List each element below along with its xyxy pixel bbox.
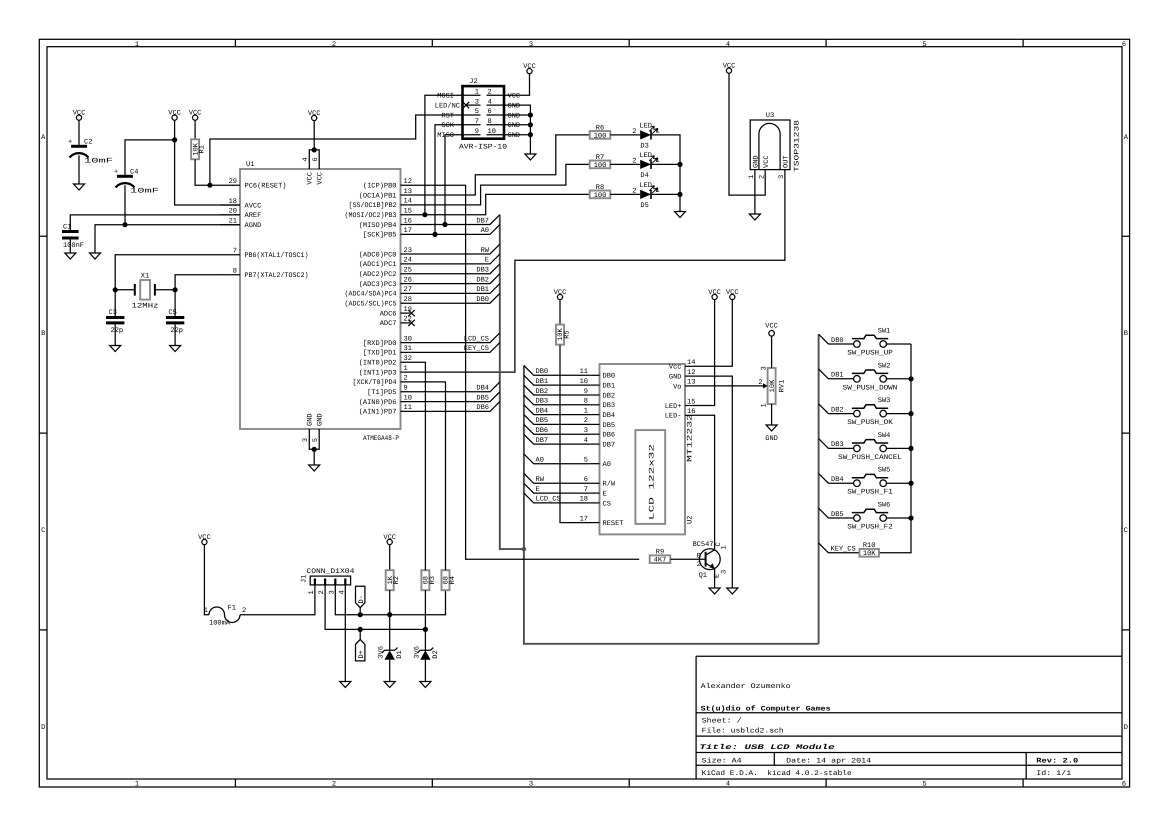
svg-text:SW3: SW3 [878, 397, 891, 405]
wire SW4 to right rail [887, 447, 912, 449]
svg-text:100: 100 [594, 132, 607, 140]
svg-text:4: 4 [726, 781, 730, 789]
svg-text:D2: D2 [432, 650, 440, 658]
wire VCC down to LED+ pin15 [694, 300, 715, 406]
svg-text:5: 5 [475, 108, 479, 116]
svg-text:Date: 14 apr 2014: Date: 14 apr 2014 [786, 758, 871, 766]
svg-text:3: 3 [302, 438, 310, 442]
svg-text:12: 12 [404, 178, 412, 186]
wire VCC to R5 [559, 300, 561, 325]
svg-text:TSOP31238: TSOP31238 [794, 120, 802, 172]
svg-text:2: 2 [242, 607, 246, 615]
svg-text:[RXD]PD0: [RXD]PD0 [363, 339, 397, 348]
svg-text:SW6: SW6 [878, 502, 891, 510]
svg-text:SW_PUSH_DOWN: SW_PUSH_DOWN [843, 384, 898, 392]
wire+bus entry A0 from U1 [421, 225, 500, 235]
svg-text:2: 2 [332, 781, 336, 789]
svg-text:F1: F1 [228, 605, 236, 613]
svg-text:100: 100 [594, 162, 607, 170]
wire R2 to D- line and D1 [389, 590, 391, 650]
wire+bus entry KEY_CS to R10 [819, 543, 860, 553]
wire D+ label stem [359, 629, 361, 639]
ground symbol AGND [90, 253, 101, 259]
svg-text:1: 1 [761, 403, 769, 407]
wire+bus entry E to LCD [524, 483, 591, 493]
svg-text:Vcc: Vcc [669, 364, 682, 372]
svg-text:10: 10 [488, 128, 496, 136]
power symbol VCC above fuse F1 [198, 534, 211, 545]
svg-text:28: 28 [404, 296, 412, 304]
svg-text:DB5: DB5 [476, 394, 489, 402]
svg-text:DB0: DB0 [476, 296, 489, 304]
wire PB6 to crystal left [115, 255, 220, 290]
title block frame [696, 656, 1122, 779]
wire SW1 to right rail [887, 343, 912, 345]
ground symbol below C1 [65, 253, 76, 259]
svg-text:DB2: DB2 [603, 392, 616, 400]
svg-text:DB3: DB3 [831, 441, 844, 449]
global label D+ [355, 639, 365, 661]
junction SW4 on rail [908, 446, 913, 451]
wire PB2 pin14 to R7 (stepped) [421, 164, 590, 205]
svg-text:U2: U2 [687, 516, 695, 524]
svg-text:(AIN0)PD6: (AIN0)PD6 [359, 398, 397, 407]
svg-text:SW2: SW2 [878, 362, 891, 370]
svg-text:VCC: VCC [508, 93, 521, 101]
junction SW6 on rail [908, 515, 913, 520]
svg-text:(MOSI/OC2)PB3: (MOSI/OC2)PB3 [345, 211, 397, 220]
svg-text:ADC7: ADC7 [380, 320, 397, 328]
svg-text:[XCK/T0]PD4: [XCK/T0]PD4 [353, 378, 397, 387]
capacitor C2 (polarized 10mF) [68, 120, 113, 184]
wire MOSI from J2 pin1 down to U1 PB3 row [425, 95, 456, 214]
svg-text:6: 6 [1122, 781, 1126, 789]
svg-text:RST: RST [441, 112, 454, 120]
junction J2 GND rail row6 [528, 112, 533, 117]
svg-text:ADC6: ADC6 [380, 310, 397, 318]
capacitor C5 22p [166, 290, 184, 346]
svg-text:22p: 22p [111, 327, 124, 335]
power symbol VCC above R1 [189, 109, 202, 120]
svg-text:SCK: SCK [441, 122, 454, 130]
svg-text:Alexander Ozumenko: Alexander Ozumenko [701, 682, 791, 691]
wire LCD GND pin12 to ground [694, 376, 733, 588]
resistor R6 100 [590, 131, 611, 139]
svg-text:5: 5 [922, 781, 926, 789]
svg-text:RW: RW [536, 476, 545, 484]
svg-text:GND: GND [508, 122, 521, 130]
svg-text:1: 1 [656, 157, 660, 165]
junction D+ label on D+ line [358, 627, 363, 632]
wire SW3 to right rail [887, 413, 912, 415]
svg-text:2: 2 [488, 89, 492, 97]
svg-text:31: 31 [404, 345, 412, 353]
wire U3 pin2 to VCC [729, 73, 765, 195]
svg-text:B: B [41, 330, 45, 338]
junction SW3 on rail [908, 411, 913, 416]
svg-text:DB5: DB5 [603, 422, 616, 430]
resistor R3 68 [421, 570, 429, 590]
wire VCC to R1 [194, 120, 196, 139]
svg-text:GND: GND [508, 103, 521, 111]
svg-text:DB7: DB7 [536, 437, 549, 445]
svg-text:1: 1 [656, 187, 660, 195]
wire PB0 pin12 to R9 (long route) [421, 185, 640, 559]
svg-text:Rev: 2.0: Rev: 2.0 [1036, 758, 1078, 766]
ground symbol below C5 [170, 346, 181, 352]
wire+bus entry DB3 to SW4 [819, 439, 854, 449]
svg-text:J1: J1 [301, 575, 309, 583]
svg-text:3: 3 [475, 98, 479, 106]
wire J2 VCC pin2 to VCC symbol [512, 74, 530, 96]
wire+bus entry DB4 to SW5 [819, 473, 854, 483]
wire+bus entry RW to LCD [524, 474, 591, 484]
power symbol VCC above C4 / AVCC rail [168, 109, 181, 120]
LED D4 [640, 160, 651, 169]
junction crystal right / C5 / PB7 [173, 287, 178, 292]
svg-text:4: 4 [302, 157, 310, 161]
svg-text:RW: RW [481, 247, 490, 255]
global label D- [355, 586, 365, 608]
svg-text:VCC: VCC [765, 323, 778, 331]
svg-text:R5: R5 [564, 330, 572, 338]
LCD right pins [665, 359, 696, 421]
svg-text:File: usblcd2.sch: File: usblcd2.sch [702, 727, 784, 736]
svg-text:R6: R6 [596, 124, 604, 132]
ground symbol below LCD GND [727, 588, 738, 594]
ground symbol below D2 [420, 682, 431, 688]
wire VCC to AVCC rail and C4 top [125, 120, 240, 205]
power symbol VCC for LCD Vcc [726, 289, 739, 300]
svg-text:[SCK]PB5: [SCK]PB5 [363, 231, 397, 240]
wire D4 cathode to rail [651, 163, 680, 165]
wire Q1 emitter to ground [714, 569, 716, 588]
svg-text:3V6: 3V6 [413, 646, 421, 659]
svg-text:MT12232: MT12232 [687, 414, 695, 462]
svg-text:D: D [41, 724, 45, 732]
wire+bus entry LCD_CS from U1 [421, 333, 500, 343]
svg-text:LED/NC: LED/NC [435, 102, 460, 111]
bus junction at jog [522, 547, 526, 551]
svg-text:VCC: VCC [308, 110, 321, 118]
svg-text:DB4: DB4 [831, 476, 844, 484]
svg-text:LED-: LED- [665, 413, 682, 421]
svg-text:LED: LED [639, 152, 652, 160]
LCD left pins [580, 368, 624, 528]
wire RV1 pin1 to GND [771, 404, 773, 425]
svg-text:4K7: 4K7 [654, 557, 667, 565]
svg-text:SW_PUSH_UP: SW_PUSH_UP [847, 350, 893, 358]
svg-text:SW5: SW5 [878, 467, 891, 475]
svg-text:C2: C2 [84, 139, 92, 147]
ground symbol below RV1 with label [766, 425, 777, 431]
junction D4 on rail [677, 162, 682, 167]
svg-text:DB4: DB4 [536, 407, 549, 415]
wire R7 to LED D4 [610, 163, 640, 165]
junction SW5 on rail [908, 481, 913, 486]
junction SW2 on rail [908, 376, 913, 381]
svg-text:2: 2 [632, 187, 636, 195]
power symbol VCC above U1 [308, 110, 321, 121]
LCD module U2 body [600, 364, 686, 534]
svg-text:DB1: DB1 [603, 383, 616, 391]
svg-text:VCC: VCC [708, 289, 721, 297]
svg-text:DB1: DB1 [831, 372, 844, 380]
svg-text:C1: C1 [63, 224, 71, 232]
svg-text:B: B [1124, 330, 1128, 338]
svg-text:10mF: 10mF [130, 188, 159, 196]
svg-text:LED+: LED+ [665, 403, 682, 411]
svg-text:100nF: 100nF [63, 242, 84, 250]
svg-text:DB4: DB4 [476, 385, 489, 393]
no-connect X on pin 19 ADC6 [408, 310, 414, 316]
svg-text:U3: U3 [766, 112, 774, 120]
svg-text:RV1: RV1 [779, 380, 787, 393]
svg-text:1: 1 [135, 781, 139, 789]
wire U3 pin1 GND down [754, 170, 756, 214]
svg-text:A0: A0 [481, 227, 489, 235]
resistor R7 100 [590, 161, 611, 169]
svg-text:VCC: VCC [168, 109, 181, 117]
wire+bus entry DB6 to LCD [524, 424, 591, 434]
svg-text:(ADC5/SCL)PC5: (ADC5/SCL)PC5 [345, 300, 397, 309]
svg-text:6: 6 [488, 108, 492, 116]
svg-text:PC6(RESET): PC6(RESET) [245, 182, 287, 191]
connector J1 pin stubs and numbers [308, 579, 346, 595]
svg-text:DB0: DB0 [603, 373, 616, 381]
svg-text:1: 1 [404, 365, 408, 373]
svg-text:CONN_D1X04: CONN_D1X04 [306, 568, 354, 576]
switch SW6 SW_PUSH_F2 [847, 502, 893, 532]
svg-text:2: 2 [632, 157, 636, 165]
resistor R8 100 [590, 191, 611, 199]
ground symbol below J1 pin4 [340, 682, 351, 688]
svg-text:ATMEGA48-P: ATMEGA48-P [363, 435, 399, 443]
wire SW6 to right rail [887, 517, 912, 519]
svg-text:LCD_CS: LCD_CS [536, 496, 561, 504]
svg-text:OUT: OUT [783, 155, 791, 168]
svg-text:PB6(XTAL1/TOSC1): PB6(XTAL1/TOSC1) [245, 251, 309, 260]
wire+bus entry DB1 to LCD [524, 375, 591, 385]
svg-text:RESET: RESET [603, 520, 624, 528]
ground symbol below J2 [525, 154, 536, 160]
wire+bus entry DB1 to SW2 [819, 369, 854, 379]
zener diode D2 3V6 [418, 648, 434, 653]
svg-text:2: 2 [404, 375, 408, 383]
junction J2 GND rail row10 [528, 132, 533, 137]
wire+bus entry E from U1 [421, 254, 500, 264]
svg-text:DB6: DB6 [536, 427, 549, 435]
svg-text:22p: 22p [170, 327, 183, 335]
svg-text:4: 4 [488, 98, 492, 106]
svg-text:DB2: DB2 [831, 406, 844, 414]
svg-text:14: 14 [404, 198, 412, 206]
wire+bus entry DB6 from U1 [421, 402, 500, 412]
power symbol VCC above RV1 (with circle) [765, 323, 778, 337]
wire D1 to ground [389, 660, 391, 682]
svg-text:D1: D1 [396, 650, 404, 658]
svg-text:(AIN1)PD7: (AIN1)PD7 [359, 408, 397, 417]
junction SCK on PB5 wire [432, 232, 437, 237]
svg-text:DB5: DB5 [831, 511, 844, 519]
svg-text:SW_PUSH_CANCEL: SW_PUSH_CANCEL [838, 454, 902, 462]
wire+bus entry DB3 to LCD [524, 395, 591, 405]
svg-text:Size: A4: Size: A4 [702, 757, 742, 766]
wire AGND: U1 pin21 to ground, with C4 tap [95, 225, 240, 253]
wire J1 pin4 to ground [344, 585, 346, 682]
junction D5 on rail [677, 192, 682, 197]
svg-text:DB7: DB7 [603, 442, 616, 450]
svg-text:VCC: VCC [763, 155, 771, 168]
svg-text:AVCC: AVCC [245, 202, 262, 210]
svg-text:AVR-ISP-10: AVR-ISP-10 [459, 144, 507, 152]
wire+bus entry DB0 to SW1 [819, 334, 854, 344]
svg-text:(INT1)PD3: (INT1)PD3 [359, 368, 397, 377]
wire RST from J2 pin5 to reset junction [210, 115, 456, 185]
bus switches vertical [818, 334, 820, 644]
power symbol VCC above R2 [383, 534, 396, 545]
svg-text:(ADC4/SDA)PC4: (ADC4/SDA)PC4 [345, 290, 397, 299]
svg-text:7: 7 [233, 248, 237, 256]
svg-text:A0: A0 [603, 461, 611, 469]
LED D3 [640, 130, 651, 139]
svg-text:D3: D3 [640, 143, 648, 151]
svg-text:DB3: DB3 [603, 402, 616, 410]
svg-text:DB1: DB1 [476, 286, 489, 294]
wire+bus entry DB5 from U1 [421, 392, 500, 402]
svg-text:10: 10 [404, 394, 412, 402]
net label GND at J2 pins 4 6 8 10 [508, 103, 521, 141]
svg-text:KEY_CS: KEY_CS [464, 345, 489, 353]
svg-text:24: 24 [404, 257, 412, 265]
svg-text:27: 27 [404, 286, 412, 294]
svg-text:23: 23 [404, 247, 412, 255]
svg-text:VCC: VCC [383, 534, 396, 542]
junction R3/D2 on D+ line [423, 627, 428, 632]
wire AREF: U1 pin20 to C1 [70, 215, 240, 231]
resistor R1 10K (reset pull-up) [191, 139, 199, 159]
junction MISO on PB4 wire [442, 222, 447, 227]
IR receiver U3 body [748, 112, 801, 179]
ground symbol below U3 [749, 214, 760, 220]
wire PB1 pin13 to R6 (stepped) [421, 135, 590, 195]
svg-text:1: 1 [656, 127, 660, 135]
svg-text:2: 2 [758, 379, 762, 387]
resistor R4 68 [442, 570, 450, 590]
junction MOSI on PB3 wire [422, 212, 427, 217]
capacitor C1 100nF [62, 224, 84, 254]
svg-text:DB6: DB6 [476, 404, 489, 412]
wire U3 OUT pin3 to U1 INT1/PD3 [421, 170, 785, 373]
svg-text:2: 2 [632, 128, 636, 136]
wire+bus entry KEY_CS from U1 [421, 343, 500, 353]
svg-text:30: 30 [404, 335, 412, 343]
svg-text:D4: D4 [640, 172, 648, 180]
svg-text:DB2: DB2 [476, 276, 489, 284]
svg-text:Vo: Vo [673, 383, 681, 391]
svg-text:E: E [485, 257, 489, 265]
svg-text:DB3: DB3 [476, 267, 489, 275]
svg-text:E: E [603, 491, 607, 499]
wire+bus entry DB1 from U1 [421, 284, 500, 294]
wire VCC to fuse F1 [204, 545, 209, 615]
svg-text:(ADC0)PC0: (ADC0)PC0 [359, 250, 397, 259]
wire SCK from J2 pin7 down to U1 PB5 row [435, 125, 456, 235]
svg-text:8: 8 [488, 118, 492, 126]
MCU U1 bottom power pins 3 and 5 (GND) [302, 413, 324, 449]
svg-text:5: 5 [922, 41, 926, 49]
crystal X1 12MHz [115, 273, 175, 311]
svg-text:+: + [68, 139, 72, 147]
svg-text:AREF: AREF [245, 212, 262, 220]
wire J1 pin2 to D+ line [325, 585, 425, 630]
resistor R5 10K (LCD reset pull-up) [556, 325, 564, 345]
wire VCC to R2 [389, 545, 391, 571]
svg-text:1: 1 [135, 41, 139, 49]
svg-text:DB4: DB4 [603, 412, 616, 420]
switch SW5 SW_PUSH_F1 [847, 467, 893, 497]
switch SW1 SW_PUSH_UP [847, 328, 893, 358]
svg-text:6: 6 [312, 157, 320, 161]
svg-text:VCC: VCC [523, 63, 536, 71]
switch SW2 SW_PUSH_DOWN [843, 362, 898, 392]
wire+bus entry DB7 to LCD [524, 434, 591, 444]
MCU U1 body [240, 169, 401, 429]
wire VCC symbol to U1 power bar [313, 121, 315, 150]
power symbol VCC above R5 [554, 289, 567, 300]
wire D3 cathode to LED ground rail [651, 135, 680, 212]
svg-text:Id: 1/1: Id: 1/1 [1036, 769, 1071, 778]
svg-text:(ADC3)PC3: (ADC3)PC3 [359, 280, 397, 289]
wire D2 to ground [424, 660, 426, 682]
svg-text:7: 7 [475, 118, 479, 126]
svg-text:VCC: VCC [726, 289, 739, 297]
wire+bus entry DB4 to LCD [524, 405, 591, 415]
svg-text:DB7: DB7 [476, 217, 489, 225]
svg-text:3: 3 [529, 41, 533, 49]
svg-text:C4: C4 [130, 169, 138, 177]
svg-text:B: B [697, 552, 701, 560]
svg-text:D5: D5 [640, 202, 648, 210]
ground symbol below Q1 [709, 588, 720, 594]
wire VCC to RV1 pin3 [771, 336, 773, 368]
svg-text:R2: R2 [393, 576, 401, 584]
svg-text:J2: J2 [469, 78, 477, 86]
svg-text:1: 1 [308, 590, 316, 594]
svg-text:DB6: DB6 [603, 432, 616, 440]
junction D- label on D- line [358, 612, 363, 617]
svg-text:GND: GND [669, 374, 682, 382]
svg-text:E: E [536, 486, 540, 494]
svg-text:9: 9 [475, 128, 479, 136]
svg-text:(ADC1)PC1: (ADC1)PC1 [359, 260, 397, 269]
switch SW3 SW_PUSH_OK [847, 397, 893, 427]
svg-text:9: 9 [404, 385, 408, 393]
svg-text:VCC: VCC [316, 172, 324, 185]
wire R8 to LED D5 [610, 193, 640, 195]
zener diode D1 3V6 [382, 648, 398, 653]
svg-text:1: 1 [204, 607, 208, 615]
svg-text:10K: 10K [863, 550, 876, 558]
wire+bus entry LCD_CS to LCD [524, 493, 591, 503]
svg-text:R8: R8 [596, 184, 604, 192]
junction J2 GND rail row8 [528, 122, 533, 127]
junction RST net at R1 bottom wire [207, 183, 212, 188]
svg-text:3V6: 3V6 [378, 646, 386, 659]
svg-text:DB0: DB0 [536, 368, 549, 376]
svg-text:C: C [1124, 527, 1128, 535]
svg-text:GND: GND [307, 413, 315, 426]
